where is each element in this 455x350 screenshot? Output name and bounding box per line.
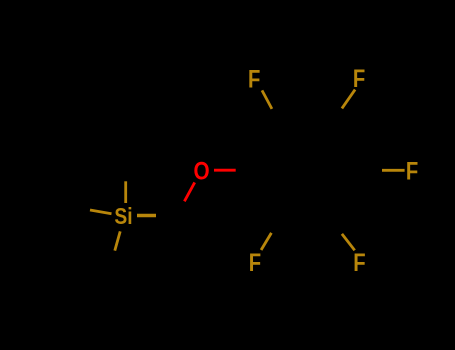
svg-text:Si: Si [114, 203, 132, 229]
bond Si-CH3 (down methyl) [115, 231, 120, 250]
bond C3ring-F2 (meta top-right) [342, 90, 355, 109]
bond C6ring-F4 (ortho bottom-left) [261, 233, 271, 250]
svg-text:O: O [194, 156, 210, 184]
bond C5ring-F5 (meta bottom-right) [342, 234, 355, 250]
svg-text:F: F [406, 156, 418, 185]
bond Si-CH3 (left methyl) [90, 210, 112, 214]
bond Si-CH2 [137, 214, 156, 218]
svg-text:F: F [353, 64, 365, 93]
bond O-C1ring [214, 169, 236, 172]
svg-text:F: F [248, 65, 260, 94]
bond C2ring-F1 (ortho top-left) [262, 90, 272, 109]
bond CH2-CH2 (carbon-carbon, black-on-black) [156, 201, 184, 215]
bond O-CH2 [184, 182, 194, 201]
bond C4ring-F3 (para right) [382, 169, 405, 172]
svg-text:F: F [249, 248, 261, 277]
bond Si-CH3 (up methyl) [124, 181, 127, 203]
svg-text:F: F [353, 248, 365, 277]
benzene ring C1-C6 of pentafluorophenyl (carbon bonds drawn black-on-black) [236, 108, 382, 233]
